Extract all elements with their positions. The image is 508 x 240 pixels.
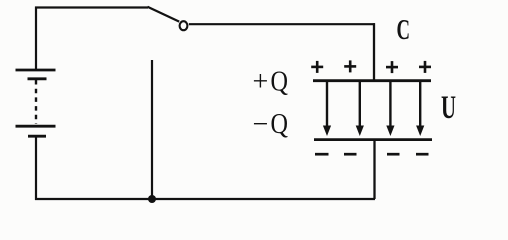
wire left vertical top: [35, 7, 37, 70]
svg-text:−: −: [253, 109, 269, 140]
field arrow 1: [323, 81, 331, 136]
field arrow 3: [386, 81, 394, 136]
minus charge signs under bottom plate: [315, 153, 429, 156]
wire middle vertical: [151, 60, 153, 199]
svg-text:C: C: [397, 14, 411, 46]
wire bottom horizontal: [35, 198, 375, 200]
label -Q: [253, 109, 289, 140]
svg-text:Q: Q: [271, 67, 289, 98]
svg-text:+: +: [253, 67, 269, 98]
wire left vertical bottom: [35, 137, 37, 200]
battery B1: [16, 70, 56, 136]
plus charge signs on top plate: [311, 60, 431, 73]
wire bottom stem of capacitor: [373, 140, 375, 199]
svg-text:U: U: [441, 90, 456, 126]
field arrow 2: [356, 81, 364, 136]
switch S1: [148, 7, 188, 30]
junction dot: [148, 195, 156, 203]
wire top-right horizontal: [189, 23, 375, 25]
wire right vertical to capacitor: [373, 23, 375, 80]
svg-text:Q: Q: [271, 109, 289, 140]
capacitor C bottom plate: [314, 138, 432, 141]
wire top-left horizontal: [35, 6, 148, 8]
capacitor C top plate: [313, 79, 431, 82]
label +Q: [253, 67, 289, 98]
field arrow 4: [416, 81, 424, 136]
